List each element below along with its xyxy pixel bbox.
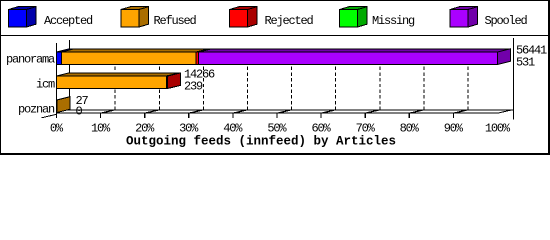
- svg-text:Missing: Missing: [372, 14, 415, 28]
- svg-text:60%: 60%: [311, 122, 331, 136]
- svg-text:poznan: poznan: [18, 103, 55, 117]
- bar panorama: top faces: [57, 49, 511, 65]
- svg-text:30%: 30%: [179, 122, 199, 136]
- bar icm: top faces: [57, 73, 181, 89]
- floor front edge: [57, 112, 498, 114]
- image border frame: [1, 1, 550, 155]
- legend cube Refused: [121, 7, 149, 27]
- bar panorama: right cap: [498, 49, 511, 65]
- bar poznan: front face: [56, 100, 59, 113]
- gridline 50%: [291, 65, 293, 110]
- right plot border: [513, 38, 515, 120]
- svg-text:239: 239: [184, 80, 203, 94]
- gridline 30%: [202, 65, 204, 110]
- legend cube Missing: [340, 7, 368, 27]
- bar icm: right cap: [168, 73, 181, 89]
- y-axis back line (0% back): [69, 40, 71, 110]
- gridline 40%: [247, 65, 249, 110]
- svg-text:Outgoing feeds (innfeed) by Ar: Outgoing feeds (innfeed) by Articles: [126, 135, 396, 149]
- svg-text:Spooled: Spooled: [485, 14, 528, 28]
- legend cube Rejected: [230, 7, 258, 27]
- gridline 20%: [158, 65, 160, 110]
- bar poznan: top face: [57, 97, 71, 113]
- bar poznan: right cap: [57, 97, 70, 113]
- x ticks 0%..90% (front vertical + 3d diagonal): [101, 110, 467, 118]
- svg-text:531: 531: [516, 56, 535, 70]
- svg-text:80%: 80%: [400, 122, 420, 136]
- legend cube Accepted: [9, 7, 37, 27]
- gridline 80%: [423, 65, 425, 110]
- svg-text:0%: 0%: [50, 122, 64, 136]
- legend cube Spooled: [450, 7, 478, 27]
- svg-text:100%: 100%: [485, 122, 511, 136]
- svg-text:40%: 40%: [223, 122, 243, 136]
- svg-text:panorama: panorama: [6, 53, 55, 67]
- svg-text:icm: icm: [36, 78, 55, 92]
- floor back edge: [57, 109, 514, 111]
- gridline 70%: [379, 65, 381, 110]
- bar icm: front faces: [57, 76, 167, 89]
- gridline 90%: [467, 65, 469, 110]
- bar panorama: front faces: [57, 52, 62, 65]
- x tick labels: [50, 122, 511, 136]
- svg-text:Refused: Refused: [154, 14, 197, 28]
- svg-text:70%: 70%: [356, 122, 376, 136]
- gridline 10% (back plane, dashed): [114, 65, 116, 110]
- floor right end diagonal: [498, 110, 511, 113]
- legend separator line: [0, 35, 550, 37]
- svg-text:90%: 90%: [444, 122, 464, 136]
- gridline 60%: [335, 65, 337, 110]
- floor left foot diagonal: [42, 114, 57, 118]
- svg-text:10%: 10%: [91, 122, 111, 136]
- y-axis front line: [56, 43, 58, 118]
- svg-text:0: 0: [76, 105, 83, 119]
- svg-text:Rejected: Rejected: [265, 14, 314, 28]
- svg-text:20%: 20%: [135, 122, 155, 136]
- svg-text:Accepted: Accepted: [44, 14, 93, 28]
- svg-text:50%: 50%: [267, 122, 287, 136]
